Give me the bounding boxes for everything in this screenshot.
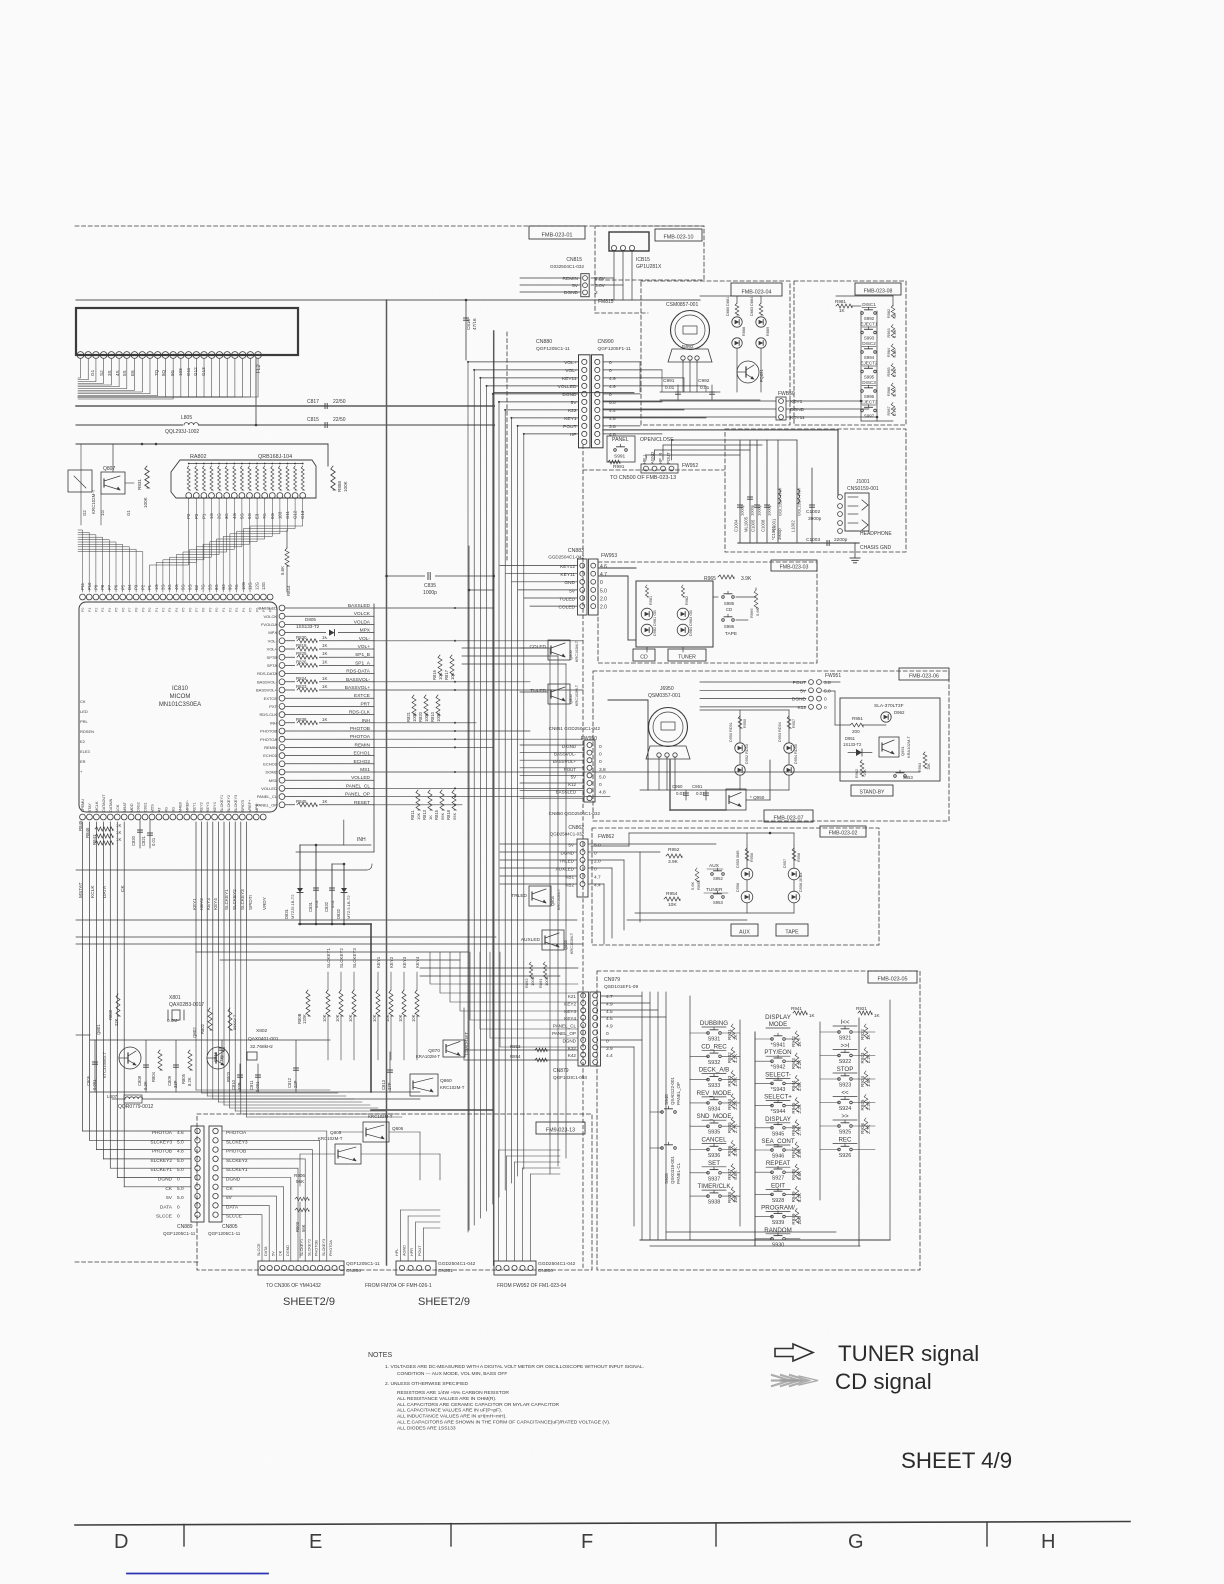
svg-text:KRC102M-T: KRC102M-T	[575, 640, 579, 662]
svg-text:KEY2: KEY2	[389, 956, 394, 968]
transistor Q802	[207, 1047, 229, 1069]
svg-text:G1: G1	[126, 510, 131, 516]
connector CN805 QGF1205C1-11	[209, 1126, 222, 1222]
resistor R817 10K rotated	[450, 655, 454, 675]
wire CN801 feeds	[400, 1210, 402, 1261]
svg-text:1K: 1K	[322, 684, 327, 689]
svg-text:P5: P5	[249, 608, 253, 612]
svg-text:0: 0	[600, 580, 603, 586]
label box FMB-023-10	[655, 229, 702, 241]
svg-text:K12: K12	[797, 705, 806, 711]
pin row of RA802	[186, 493, 192, 499]
svg-text:F: F	[581, 1531, 593, 1553]
svg-text:VRDY: VRDY	[262, 897, 267, 910]
svg-text:12G: 12G	[254, 582, 259, 590]
wire pot pins down	[682, 360, 684, 392]
svg-text:QGD2504C1-032: QGD2504C1-032	[550, 832, 585, 837]
transistor Q860 KRC102M-T	[410, 1074, 438, 1096]
svg-text:VOL-: VOL-	[359, 636, 371, 642]
resistor R947 3.9K	[795, 1142, 799, 1156]
svg-text:FMB-023-01: FMB-023-01	[541, 232, 572, 238]
svg-text:5S: 5S	[122, 370, 127, 376]
capacitor C812 22P	[295, 1040, 297, 1092]
svg-text:KEY4: KEY4	[213, 802, 217, 812]
svg-text:S933: S933	[708, 1083, 721, 1089]
svg-text:0.01: 0.01	[676, 791, 685, 796]
switch S986 TAPE	[722, 619, 725, 622]
svg-text:P7: P7	[128, 608, 132, 612]
svg-text:FMB-023-07: FMB-023-07	[774, 815, 804, 821]
svg-text:C992: C992	[698, 378, 710, 384]
svg-text:4G: 4G	[165, 807, 169, 812]
svg-text:1.5K: 1.5K	[797, 1081, 802, 1091]
svg-text:KEY1: KEY1	[790, 399, 803, 405]
svg-text:CD_REC: CD_REC	[701, 1043, 727, 1050]
svg-text:EJECT2: EJECT2	[860, 361, 878, 366]
svg-text:5V: 5V	[166, 1195, 173, 1201]
svg-text:R810: R810	[430, 711, 435, 722]
svg-text:R811: R811	[410, 810, 415, 820]
svg-text:R805: R805	[181, 1073, 186, 1084]
svg-text:4.9: 4.9	[606, 1001, 613, 1007]
svg-text:FM9-023-13: FM9-023-13	[546, 1127, 575, 1133]
transistor Q807 KRC102M-T	[101, 472, 125, 494]
svg-text:1SS133-T2: 1SS133-T2	[296, 624, 320, 629]
svg-text:1000p: 1000p	[740, 504, 745, 516]
svg-text:R925: R925	[860, 1099, 865, 1110]
svg-text:>>I: >>I	[841, 1043, 850, 1050]
svg-text:R939: R939	[791, 1213, 796, 1224]
svg-text:2G: 2G	[161, 584, 166, 590]
svg-text:33p: 33p	[219, 1054, 224, 1062]
resistor R802 33K	[208, 1008, 212, 1030]
svg-text:MDD: MDD	[130, 803, 134, 812]
resistor R934 2.2K	[731, 1094, 735, 1108]
svg-text:AUXLED: AUXLED	[521, 937, 541, 943]
svg-text:R934: R934	[727, 1098, 732, 1109]
zener diode D832 MTZ5.1B-T2	[343, 864, 345, 924]
svg-text:S946: S946	[772, 1154, 785, 1160]
svg-text:0.0M-: 0.0M-	[167, 1018, 179, 1023]
svg-text:S926: S926	[839, 1153, 852, 1159]
svg-text:R888: R888	[742, 327, 746, 336]
svg-text:DECK_A/B: DECK_A/B	[699, 1067, 730, 1074]
svg-text:P0: P0	[81, 608, 85, 612]
svg-text:1K: 1K	[322, 717, 327, 722]
svg-text:G13: G13	[201, 367, 206, 376]
svg-text:R820: R820	[418, 711, 423, 722]
svg-text:4.9: 4.9	[609, 376, 616, 382]
svg-text:VOLLED: VOLLED	[261, 786, 277, 791]
label box FMB-023-03	[771, 560, 817, 571]
resistor R931 2K	[731, 1024, 735, 1038]
capacitor C810 22P	[239, 1064, 241, 1092]
switch *S941 DISPLAY	[771, 1038, 774, 1041]
svg-text:FWB50: FWB50	[778, 391, 795, 397]
svg-text:R945: R945	[791, 1102, 796, 1113]
svg-text:1K: 1K	[322, 651, 327, 656]
svg-text:POUT: POUT	[564, 767, 577, 772]
svg-text:VOLLED: VOLLED	[558, 384, 577, 390]
svg-text:QSA0122-001: QSA0122-001	[670, 1077, 675, 1105]
wire IR receiver pins down	[613, 251, 615, 300]
connector CN801 GGD2504C1-042	[396, 1261, 436, 1275]
svg-text:GP1U281X: GP1U281X	[636, 264, 662, 270]
svg-text:100K: 100K	[343, 480, 348, 492]
label box FMB-023-07	[764, 810, 813, 822]
svg-text:S986: S986	[724, 624, 735, 629]
pin row IC810 top	[80, 594, 86, 600]
svg-text:9G: 9G	[228, 584, 233, 590]
svg-text:R938: R938	[727, 1192, 732, 1203]
svg-text:120K: 120K	[302, 1014, 307, 1024]
svg-text:2.7K: 2.7K	[733, 1123, 738, 1133]
resistor R966 5.6K rotated	[754, 590, 758, 608]
label box TAPE	[776, 924, 808, 936]
svg-text:5.0: 5.0	[594, 843, 601, 849]
svg-text:1K: 1K	[809, 1013, 816, 1018]
svg-text:S953: S953	[903, 775, 913, 780]
svg-text:1K: 1K	[322, 676, 327, 681]
svg-text:P11: P11	[80, 582, 85, 590]
svg-text:D805: D805	[305, 617, 316, 622]
svg-text:2.2K: 2.2K	[866, 1100, 871, 1110]
wire matrix left links	[650, 1111, 662, 1113]
svg-text:3.8: 3.8	[609, 424, 616, 430]
svg-text:2.7K: 2.7K	[866, 1124, 871, 1134]
svg-text:MREF-: MREF-	[185, 799, 189, 812]
svg-text:VOL-: VOL-	[268, 638, 278, 643]
svg-text:REC: REC	[838, 1137, 852, 1144]
svg-text:R903: R903	[295, 1221, 300, 1232]
svg-text:POUT: POUT	[563, 424, 576, 430]
svg-text:BASSLED: BASSLED	[556, 790, 576, 795]
svg-text:0: 0	[824, 705, 827, 711]
svg-text:KEY1: KEY1	[564, 416, 577, 422]
wire LED rails 06	[739, 710, 741, 742]
svg-text:1K: 1K	[116, 823, 121, 828]
svg-text:*C1001: *C1001	[771, 525, 776, 540]
svg-text:SND_MODE: SND_MODE	[696, 1113, 731, 1120]
svg-text:Q806: Q806	[392, 1126, 404, 1131]
svg-text:3.9K: 3.9K	[797, 1148, 802, 1158]
svg-text:KRC102M-T: KRC102M-T	[368, 1114, 393, 1119]
svg-text:*S942: *S942	[771, 1065, 786, 1071]
svg-text:S992: S992	[864, 316, 875, 321]
svg-text:TUNER signal: TUNER signal	[838, 1341, 979, 1366]
svg-text:3.9K: 3.9K	[733, 1146, 738, 1156]
svg-text:7Q: 7Q	[154, 369, 159, 376]
LED D955 pair	[745, 848, 749, 860]
svg-text:VOL+: VOL+	[358, 644, 371, 650]
svg-text:SP1_B: SP1_B	[355, 652, 370, 658]
svg-text:GGL231K-470Y: GGL231K-470Y	[797, 487, 802, 516]
wire trunk vertical x=493	[493, 331, 495, 1265]
svg-text:P6: P6	[114, 584, 119, 590]
LED D881 with resistor R888	[735, 303, 739, 315]
svg-text:R943: R943	[791, 1058, 796, 1069]
svg-text:CANCEL: CANCEL	[701, 1137, 727, 1144]
wire oscillator rails	[90, 1039, 330, 1041]
svg-text:0.01: 0.01	[330, 899, 335, 908]
svg-text:QGF1205C1-11: QGF1205C1-11	[536, 346, 570, 352]
switch S953 tuner	[711, 896, 714, 899]
svg-text:5.6K: 5.6K	[733, 1169, 738, 1179]
svg-text:BASSVOL+: BASSVOL+	[553, 759, 576, 764]
svg-text:PRT: PRT	[360, 701, 370, 707]
svg-text:KEY3: KEY3	[206, 802, 210, 812]
resistor R962 10K	[860, 760, 864, 776]
svg-text:R804: R804	[151, 1071, 156, 1082]
svg-text:QGF103IC1-093: QGF103IC1-093	[553, 1075, 587, 1080]
LED D882	[732, 338, 742, 348]
svg-text:DATAOUT: DATAOUT	[102, 794, 106, 812]
svg-text:9TAY: 9TAY	[88, 803, 92, 812]
dashed box FMB-023-04	[641, 281, 790, 425]
label box FMB-023-01	[529, 226, 585, 239]
svg-text:0: 0	[594, 867, 597, 873]
svg-text:TULED: TULED	[530, 688, 546, 694]
svg-text:DGND: DGND	[158, 1177, 173, 1183]
svg-text:FM815: FM815	[598, 299, 614, 305]
svg-text:CN806: CN806	[346, 1268, 361, 1274]
svg-text:56K: 56K	[440, 813, 445, 820]
svg-text:4.6V: 4.6V	[595, 276, 606, 282]
svg-text:22/50: 22/50	[333, 399, 346, 405]
svg-text:C813: C813	[381, 1079, 386, 1090]
svg-text:0.01: 0.01	[314, 899, 319, 908]
svg-text:REMIN: REMIN	[355, 742, 371, 748]
svg-text:S936: S936	[708, 1153, 721, 1159]
svg-text:ICB15: ICB15	[636, 257, 650, 263]
svg-text:R986: R986	[887, 387, 891, 396]
svg-text:E6: E6	[130, 370, 135, 376]
svg-text:DGND: DGND	[560, 851, 574, 856]
svg-text:R931: R931	[727, 1029, 732, 1040]
svg-text:100K: 100K	[143, 496, 148, 508]
svg-text:KRC102M-T: KRC102M-T	[440, 1085, 465, 1090]
svg-text:KEY11: KEY11	[562, 376, 577, 382]
svg-text:KRC102M-T: KRC102M-T	[570, 932, 574, 954]
svg-text:P5: P5	[182, 608, 186, 612]
svg-text:H: H	[1041, 1531, 1055, 1553]
svg-text:HEADPHONE: HEADPHONE	[860, 531, 892, 537]
dashed box IR receiver group	[595, 226, 704, 280]
svg-text:KEY2: KEY2	[564, 1001, 576, 1006]
svg-text:GGD2504C1-042: GGD2504C1-042	[538, 1261, 576, 1267]
svg-text:R985: R985	[887, 367, 891, 376]
wire staircase to CN879	[430, 952, 578, 984]
svg-text:SPIDTI: SPIDTI	[241, 800, 245, 812]
svg-text:CK: CK	[165, 1186, 172, 1192]
svg-text:VOLLED: VOLLED	[351, 775, 370, 781]
svg-text:5.0: 5.0	[177, 1186, 184, 1192]
svg-text:5.6K: 5.6K	[690, 881, 695, 890]
svg-text:7G: 7G	[234, 584, 239, 590]
resistor R982 1K	[891, 305, 895, 318]
svg-text:K42: K42	[568, 1053, 577, 1058]
svg-text:QQR0779-0012: QQR0779-0012	[118, 1104, 154, 1110]
svg-text:SLA-370LT3F: SLA-370LT3F	[874, 703, 904, 709]
svg-text:1K: 1K	[428, 815, 433, 820]
svg-text:2.0: 2.0	[594, 859, 601, 865]
svg-text:FMB-023-02: FMB-023-02	[829, 830, 858, 836]
svg-text:10K: 10K	[322, 1014, 327, 1022]
resistor R858 100K	[331, 466, 335, 490]
svg-text:MODE: MODE	[769, 1021, 788, 1028]
capacitor C835 1000p	[425, 571, 435, 581]
svg-text:C1008: C1008	[761, 519, 766, 532]
resistor R942 1K	[795, 1031, 799, 1045]
svg-text:MPX: MPX	[268, 630, 277, 635]
svg-text:CN851 GGD2504C1-042: CN851 GGD2504C1-042	[549, 726, 601, 731]
svg-text:C812: C812	[287, 1077, 292, 1088]
label box FMB-023-04	[731, 283, 782, 296]
svg-text:P4: P4	[242, 608, 246, 612]
svg-text:VOLCK: VOLCK	[263, 614, 277, 619]
svg-text:R830: R830	[296, 635, 307, 640]
pin column IC810 right	[279, 605, 285, 611]
svg-text:4.7: 4.7	[600, 572, 607, 578]
svg-text:ALL RESISTANCE VALUES ARE IN O: ALL RESISTANCE VALUES ARE IN OHM(R).	[397, 1396, 496, 1402]
svg-text:QRB168J-104: QRB168J-104	[258, 454, 292, 460]
svg-text:MPX: MPX	[360, 628, 371, 634]
svg-text:P2: P2	[95, 608, 99, 612]
capacitor C809 33P	[175, 1040, 177, 1092]
svg-text:D.GND: D.GND	[562, 744, 576, 749]
svg-text:PANEL_OP: PANEL_OP	[345, 792, 370, 798]
wire thick bottom rail to trunk	[371, 1109, 494, 1111]
svg-text:FQ891: FQ891	[759, 369, 764, 382]
resistor R831 100K	[145, 466, 149, 488]
svg-text:1.2K: 1.2K	[797, 1059, 802, 1069]
svg-text:KRC102M-T: KRC102M-T	[318, 1136, 343, 1141]
svg-text:FW953: FW953	[601, 553, 617, 559]
svg-text:0.01: 0.01	[665, 385, 675, 391]
svg-text:S924: S924	[839, 1106, 852, 1112]
svg-text:56K/0/-T: 56K/0/-T	[232, 1014, 237, 1030]
svg-text:C1005: C1005	[751, 519, 756, 532]
LED D950 pair with resistor R950	[738, 716, 742, 728]
svg-text:QSK0318-001: QSK0318-001	[670, 1156, 675, 1184]
svg-text:PHOTOB: PHOTOB	[152, 1149, 172, 1155]
svg-text:DGND: DGND	[792, 697, 807, 703]
svg-text:SLCKEY2: SLCKEY2	[307, 1239, 311, 1256]
svg-text:P2: P2	[162, 608, 166, 612]
svg-text:C1004: C1004	[734, 519, 739, 532]
svg-text:R987: R987	[887, 406, 891, 415]
svg-text:2200p: 2200p	[834, 537, 848, 543]
svg-text:PHOTOA: PHOTOA	[260, 737, 277, 742]
svg-text:2.2K: 2.2K	[733, 1100, 738, 1110]
svg-text:FROM FM704 OF FMH-026-1: FROM FM704 OF FMH-026-1	[365, 1283, 432, 1289]
svg-text:PANEL_OP: PANEL_OP	[552, 1031, 576, 1036]
svg-text:100K: 100K	[424, 712, 429, 722]
svg-text:S932: S932	[708, 1060, 721, 1066]
resistor R949 8.2K	[795, 1186, 799, 1200]
svg-text:S934: S934	[708, 1106, 721, 1112]
svg-text:CNS0159-001: CNS0159-001	[847, 486, 879, 492]
svg-text:R813: R813	[422, 809, 427, 820]
svg-text:* Q950: * Q950	[750, 795, 765, 800]
svg-text:56K: 56K	[296, 1179, 305, 1184]
transistor Q891	[737, 361, 759, 383]
svg-text:PHOTOB: PHOTOB	[350, 726, 370, 732]
svg-text:KEY11: KEY11	[560, 572, 575, 578]
resistor R926 2.7K	[864, 1118, 868, 1132]
svg-text:K22: K22	[568, 408, 577, 414]
svg-text:TIMER/CLK: TIMER/CLK	[697, 1183, 731, 1190]
svg-text:NOTES: NOTES	[368, 1352, 392, 1359]
svg-text:S953: S953	[713, 900, 723, 905]
svg-text:QSM0357-001: QSM0357-001	[648, 693, 681, 699]
svg-text:S952: S952	[713, 876, 723, 881]
svg-text:1K: 1K	[116, 830, 121, 835]
svg-text:0.01: 0.01	[151, 837, 156, 846]
svg-text:S930: S930	[772, 1242, 785, 1248]
svg-text:CONDITION --- AUX MODE, VOL M: CONDITION --- AUX MODE, VOL MIN, BASS OF…	[397, 1371, 507, 1377]
svg-text:QAX02B3-0017: QAX02B3-0017	[169, 1002, 204, 1008]
wire bus into RA802 area	[76, 443, 328, 445]
svg-text:MICOM: MICOM	[170, 694, 191, 700]
svg-text:HP_R: HP_R	[658, 453, 663, 464]
dashed box FM9-023-13	[197, 1114, 592, 1270]
legend TUNER signal arrow	[775, 1344, 813, 1361]
svg-text:56K: 56K	[301, 1224, 306, 1232]
svg-text:Q860: Q860	[440, 1078, 452, 1084]
svg-text:5.0: 5.0	[600, 588, 607, 594]
svg-text:P8: P8	[202, 608, 206, 612]
svg-text:S948: S948	[664, 1094, 669, 1105]
svg-text:P6: P6	[188, 608, 192, 612]
wire trunk vertical x=386	[386, 300, 388, 1265]
svg-text:1000p: 1000p	[750, 504, 755, 516]
svg-text:DUBBING: DUBBING	[700, 1020, 728, 1027]
IC U-IC810 MICOM MN101C3S0EA body	[79, 602, 277, 812]
svg-text:TUNER: TUNER	[678, 654, 696, 660]
svg-text:5V: 5V	[572, 283, 579, 289]
svg-text:D958 2EB3: D958 2EB3	[799, 873, 803, 892]
svg-text:R982: R982	[887, 309, 891, 318]
connector CN806 QGF1205C1-11	[258, 1261, 344, 1275]
svg-text:P5: P5	[115, 608, 119, 612]
svg-text:R826: R826	[296, 659, 307, 664]
svg-text:0.001: 0.001	[255, 1081, 260, 1092]
svg-text:KEY4: KEY4	[213, 898, 218, 910]
wire long net at y=300	[76, 299, 700, 301]
svg-text:1K: 1K	[797, 1040, 802, 1047]
svg-text:EJECT1: EJECT1	[860, 322, 878, 327]
svg-text:1.8K: 1.8K	[893, 349, 897, 357]
svg-text:IC810: IC810	[172, 686, 189, 692]
svg-text:4.6: 4.6	[600, 564, 607, 570]
svg-text:0: 0	[177, 1177, 180, 1183]
wire INH cluster rails	[300, 844, 371, 846]
svg-text:P10: P10	[87, 582, 92, 590]
svg-text:SLCKEY1: SLCKEY1	[224, 889, 229, 910]
decoration blue line	[127, 1573, 268, 1575]
resistor R981 1K	[836, 304, 852, 308]
svg-text:R817: R817	[444, 669, 449, 680]
svg-text:K32: K32	[568, 1046, 577, 1051]
svg-text:B2: B2	[194, 584, 199, 590]
svg-text:0: 0	[609, 368, 612, 374]
svg-text:S921: S921	[839, 1036, 852, 1042]
connector CN889 QGF1205C1-11	[191, 1126, 204, 1222]
svg-text:R947: R947	[791, 1147, 796, 1158]
svg-text:32.768kHz: 32.768kHz	[250, 1044, 274, 1050]
wire matrix frame verticals	[641, 992, 643, 1240]
